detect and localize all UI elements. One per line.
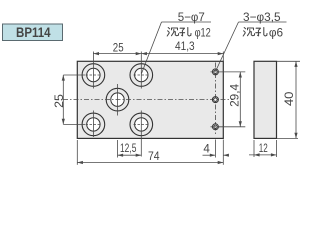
small hole column centerline <box>214 63 216 137</box>
counterbore hole bottom-center <box>130 111 153 157</box>
svg-text:25: 25 <box>113 41 124 54</box>
side view plate <box>254 61 277 138</box>
dimension 40 <box>277 61 300 138</box>
svg-text:BP114: BP114 <box>16 25 51 41</box>
dimension 12 <box>249 140 277 157</box>
svg-text:12,5: 12,5 <box>120 142 136 155</box>
svg-text:φ12: φ12 <box>195 25 211 39</box>
svg-text:40: 40 <box>283 92 296 107</box>
small hole bottom <box>211 124 221 130</box>
front view plate <box>77 61 223 138</box>
svg-text:29,4: 29,4 <box>229 83 242 107</box>
svg-text:41,3: 41,3 <box>175 40 195 53</box>
bottom dimension 12,5 <box>118 140 142 158</box>
small hole top <box>211 69 221 75</box>
small hole middle <box>212 97 218 103</box>
leader 3-phi3.5 <box>216 22 239 71</box>
leader 5-phi7 <box>142 22 162 74</box>
label BP114 <box>3 24 63 41</box>
svg-text:74: 74 <box>148 150 160 163</box>
bottom dimension 74 <box>77 140 223 165</box>
callout text chenkong phi12 <box>167 25 211 39</box>
top dimension line 25 / 41.3 <box>93 52 223 62</box>
dimension 29,4 right <box>219 72 245 127</box>
counterbore hole bottom-left <box>82 111 105 138</box>
svg-text:4: 4 <box>203 143 210 156</box>
svg-text:5−φ7: 5−φ7 <box>178 10 205 24</box>
bottom dimension 4 <box>203 140 229 158</box>
counterbore hole top-left <box>82 52 105 89</box>
svg-text:12: 12 <box>259 142 268 155</box>
center hole <box>106 84 129 116</box>
underline 5-phi7 <box>162 21 212 23</box>
svg-text:3−φ3,5: 3−φ3,5 <box>243 10 281 24</box>
horizontal centerline through center hole <box>63 99 233 101</box>
left dimension 25 <box>62 75 85 124</box>
callout text chenkong phi6 <box>243 25 283 39</box>
svg-text:25: 25 <box>53 94 66 108</box>
underline 3-phi3.5 <box>239 21 287 23</box>
svg-text:φ6: φ6 <box>269 25 284 39</box>
counterbore hole top-center <box>130 52 153 89</box>
